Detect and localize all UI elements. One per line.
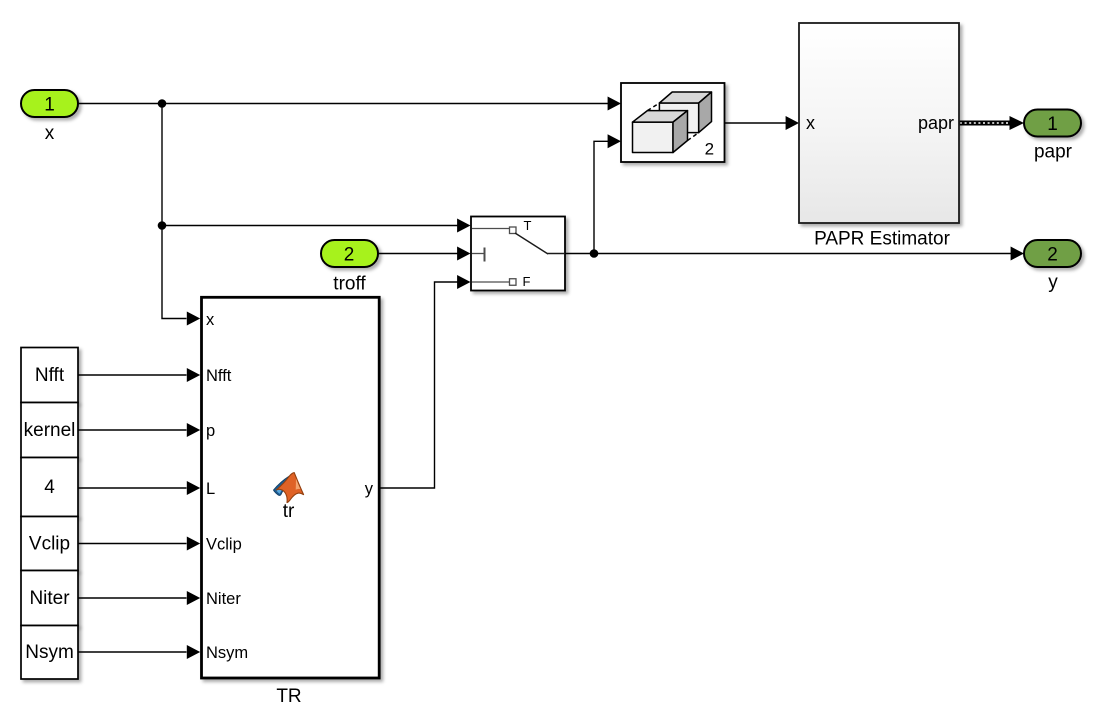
wire: J2 to switch T input <box>162 225 458 227</box>
switch middle input stub <box>472 253 484 255</box>
switch lever <box>515 233 548 254</box>
wire: switch output to outport y <box>565 253 1012 255</box>
svg-text:tr: tr <box>283 501 295 522</box>
wire 4 const to TR <box>78 487 187 489</box>
svg-text:kernel: kernel <box>24 420 76 441</box>
arrowhead at switch middle input <box>457 247 470 261</box>
arrowhead TR Niter <box>187 591 200 605</box>
constant Nsym <box>21 626 78 680</box>
svg-text:y: y <box>365 480 374 498</box>
concatenate icon: front cuboid <box>633 111 688 153</box>
wire: J3 up then right to concatenate in2 <box>594 141 609 253</box>
arrowhead TR p <box>187 423 200 437</box>
wire: troff port to switch middle input <box>378 253 458 255</box>
arrowhead TR Nfft <box>187 368 200 382</box>
constant 4 <box>21 458 78 517</box>
svg-text:Niter: Niter <box>29 588 70 609</box>
wire kernel const to TR <box>78 429 187 431</box>
svg-text:x: x <box>45 123 55 144</box>
arrowhead at switch F input <box>457 275 470 289</box>
PAPR Estimator subsystem block <box>799 23 959 223</box>
switch output stub <box>548 253 566 255</box>
switch T line <box>472 228 510 230</box>
svg-text:Niter: Niter <box>206 590 241 608</box>
inport 2 (troff) <box>321 240 378 267</box>
svg-text:Vclip: Vclip <box>29 533 70 554</box>
concatenate icon hidden edge dashes top-left <box>647 103 659 111</box>
arrowhead at PAPR x input <box>786 116 799 130</box>
svg-text:x: x <box>806 113 815 133</box>
inport 1 (x) <box>21 90 78 117</box>
svg-text:x: x <box>206 311 215 329</box>
svg-text:L: L <box>206 480 215 498</box>
svg-text:troff: troff <box>333 274 366 295</box>
switch F line <box>472 281 510 283</box>
arrowhead TR Nsym <box>187 645 200 659</box>
svg-text:Nfft: Nfft <box>206 367 232 385</box>
TR MATLAB Function block <box>202 297 380 678</box>
MATLAB logo <box>274 473 304 503</box>
svg-text:2: 2 <box>1047 245 1058 266</box>
svg-text:papr: papr <box>918 113 954 133</box>
wire Niter const to TR <box>78 597 187 599</box>
constant kernel <box>21 403 78 458</box>
switch middle tick <box>484 248 486 262</box>
arrowhead at concatenate in2 <box>608 134 621 148</box>
arrowhead at outport papr (large) <box>1010 116 1025 130</box>
svg-text:Nfft: Nfft <box>35 365 65 386</box>
outport 2 (y) <box>1024 240 1081 267</box>
svg-text:1: 1 <box>1047 114 1058 135</box>
svg-text:T: T <box>524 218 532 233</box>
wire: J1 down to J2 <box>161 104 163 226</box>
wire: TR y output to switch F input <box>380 282 458 488</box>
wire: concatenate output to PAPR Estimator x input <box>725 122 787 124</box>
svg-text:2: 2 <box>705 140 714 159</box>
switch block <box>471 217 565 291</box>
concatenate icon hidden edge dashes bottom-right <box>688 133 699 141</box>
outport 1 (papr) <box>1024 110 1081 137</box>
arrowhead at TR x input <box>187 312 200 326</box>
svg-text:Vclip: Vclip <box>206 535 242 553</box>
wire Nsym const to TR <box>78 651 187 653</box>
wire: inport x to concatenate in1 (horizontal) <box>78 103 609 105</box>
svg-text:Nsym: Nsym <box>25 642 74 663</box>
constant Nfft <box>21 348 78 403</box>
junction J3 <box>590 249 599 258</box>
svg-text:y: y <box>1048 272 1058 293</box>
switch T square <box>510 227 517 234</box>
concatenate block <box>621 83 725 162</box>
junction J2 <box>158 221 167 230</box>
junction J1 <box>158 99 167 108</box>
svg-text:papr: papr <box>1034 141 1073 162</box>
wire: J2 down then right to TR x input <box>162 226 187 319</box>
arrowhead TR Vclip <box>187 537 200 551</box>
svg-text:4: 4 <box>44 477 55 498</box>
svg-text:PAPR Estimator: PAPR Estimator <box>814 228 951 249</box>
constant Niter <box>21 571 78 626</box>
wire Nfft const to TR <box>78 374 187 376</box>
svg-text:Nsym: Nsym <box>206 644 248 662</box>
arrowhead TR L <box>187 481 200 495</box>
wire: PAPR papr output to outport papr (thick logged signal with white dots) <box>959 121 1012 126</box>
svg-text:1: 1 <box>44 95 55 116</box>
svg-text:F: F <box>523 274 531 289</box>
constant Vclip <box>21 517 78 571</box>
svg-text:2: 2 <box>344 245 355 266</box>
svg-text:p: p <box>206 422 215 440</box>
concatenate icon: back cuboid <box>659 92 711 133</box>
svg-text:TR: TR <box>276 686 301 707</box>
arrowhead at concatenate in1 <box>608 97 621 111</box>
switch F square <box>510 279 517 286</box>
arrowhead at switch T input <box>457 219 470 233</box>
wire Vclip const to TR <box>78 543 187 545</box>
arrowhead at outport y <box>1011 247 1024 261</box>
